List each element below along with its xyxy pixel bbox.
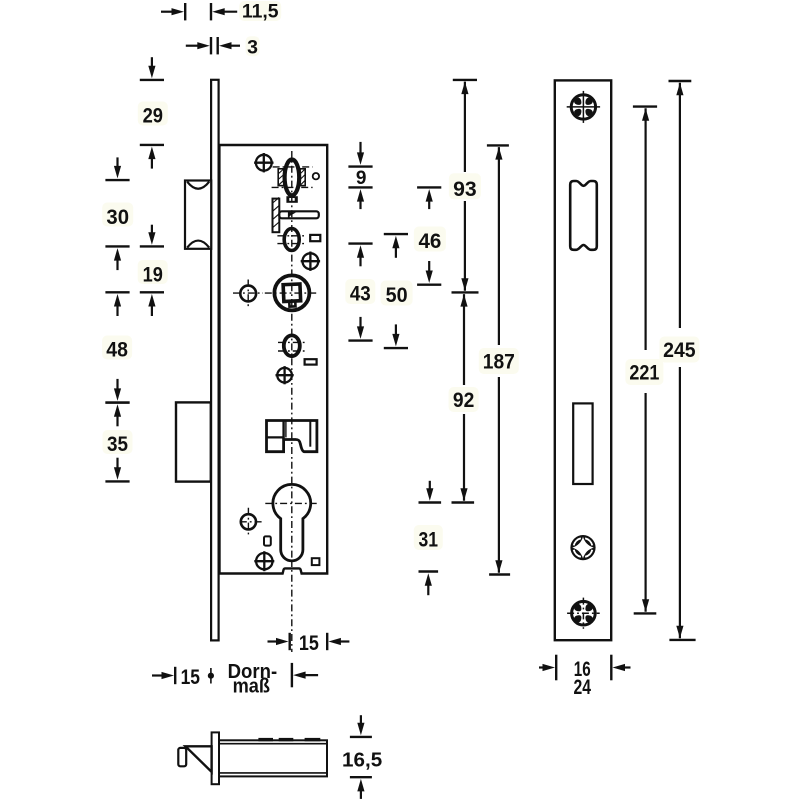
svg-text:9: 9 <box>356 168 367 189</box>
svg-text:11,5: 11,5 <box>242 2 279 23</box>
svg-text:29: 29 <box>143 104 163 128</box>
svg-text:16,5: 16,5 <box>342 749 382 771</box>
svg-text:maß: maß <box>233 676 270 698</box>
svg-text:15: 15 <box>299 631 319 655</box>
svg-text:35: 35 <box>107 432 128 456</box>
svg-text:187: 187 <box>483 350 515 374</box>
svg-text:31: 31 <box>419 527 439 551</box>
svg-text:3: 3 <box>247 36 258 58</box>
svg-text:92: 92 <box>453 388 474 412</box>
svg-text:50: 50 <box>386 283 408 307</box>
svg-text:19: 19 <box>143 262 163 286</box>
svg-text:221: 221 <box>629 360 659 384</box>
svg-text:48: 48 <box>106 338 128 362</box>
svg-text:43: 43 <box>350 281 371 305</box>
svg-text:46: 46 <box>418 229 441 253</box>
svg-text:15: 15 <box>181 665 200 689</box>
svg-text:245: 245 <box>663 338 696 362</box>
svg-text:24: 24 <box>574 675 592 699</box>
svg-text:30: 30 <box>106 205 129 229</box>
svg-text:93: 93 <box>453 177 477 201</box>
